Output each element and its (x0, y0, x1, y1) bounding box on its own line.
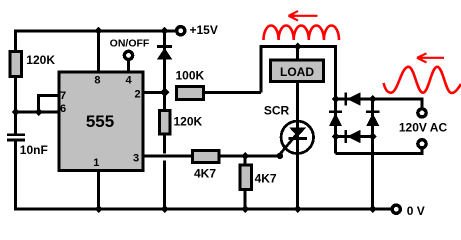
wire pin 1 (97, 171, 100, 209)
node bridge BR (369, 133, 377, 141)
120V AC terminals (418, 109, 426, 117)
wire below capacitor (14, 141, 17, 209)
wire bridge middle column (371, 99, 374, 209)
node bridge TR (369, 95, 377, 103)
node rail pin1 (95, 205, 103, 213)
wire pin 8 (97, 31, 100, 71)
resistor 100K (177, 87, 204, 100)
wire AC bottom return (336, 148, 423, 154)
bridge diode top (D2) (344, 93, 347, 106)
svg-text:+15V: +15V (190, 23, 218, 37)
wire bridge left column (334, 99, 337, 154)
wire 4K7-2 leads (244, 156, 247, 165)
svg-text:0 V: 0 V (407, 204, 425, 218)
wire pin 3 to SCR gate (144, 155, 278, 158)
wire 100K to load corner (204, 91, 261, 94)
wire bridge top row (336, 99, 423, 109)
wire left column lower (14, 78, 17, 134)
svg-text:LOAD: LOAD (280, 65, 314, 79)
node pin7 branch (35, 108, 43, 116)
resistor 4K7 #1 (193, 151, 220, 163)
svg-text:100K: 100K (176, 69, 205, 83)
svg-text:4K7: 4K7 (194, 167, 216, 181)
wire pin 4 to ON/OFF (127, 60, 130, 72)
svg-text:3: 3 (133, 153, 139, 165)
wire 120K2 to ground rail (163, 160, 166, 209)
red arrow over coil (289, 11, 318, 21)
node junction dots (12, 27, 377, 213)
bridge diode left (D3) (329, 110, 342, 113)
bridge diode middle (D4) (366, 110, 379, 113)
svg-text:8: 8 (94, 75, 100, 87)
wire load section corners (261, 47, 336, 100)
resistor R1 120K (10, 52, 22, 77)
node rail 4K7-2 (241, 205, 249, 213)
svg-text:6: 6 (60, 103, 66, 115)
wire 120K2 bottom lead with crossover gap (163, 135, 166, 153)
0V terminal (392, 205, 400, 213)
node bridge TL (332, 95, 340, 103)
svg-text:1: 1 (93, 157, 99, 169)
+15V terminal (177, 27, 185, 35)
svg-text:4: 4 (125, 75, 132, 87)
svg-text:120K: 120K (174, 114, 203, 128)
ON/OFF terminal (124, 51, 132, 59)
wire 4K7-2 to ground (244, 190, 247, 209)
svg-text:4K7: 4K7 (255, 172, 277, 186)
svg-text:SCR: SCR (264, 103, 290, 117)
wire pin 6 (16, 111, 60, 114)
wire pin 7 (39, 95, 59, 112)
op-amp U1 555 timer box (59, 72, 143, 171)
wire load/SCR vertical (296, 47, 299, 210)
node pin2 junction (160, 88, 170, 98)
node 4K7 junction (241, 152, 249, 160)
svg-text:120K: 120K (26, 53, 55, 67)
node load top (294, 43, 302, 51)
node bridge BL (332, 133, 340, 141)
node rail SCR (294, 205, 302, 213)
node pin8/rail (95, 27, 103, 35)
wire 120K2 top lead (163, 92, 166, 110)
node D1/rail (161, 27, 169, 35)
inductor L1 red coil (264, 25, 340, 40)
svg-text:7: 7 (60, 90, 66, 102)
bridge diode bottom (D5) (344, 130, 347, 143)
diode D1 (157, 45, 172, 48)
svg-text:10nF: 10nF (20, 143, 48, 157)
svg-text:ON/OFF: ON/OFF (110, 37, 150, 49)
resistor 120K #2 (160, 111, 170, 135)
wire top rail (16, 31, 177, 50)
node rail 120K2 (161, 205, 169, 213)
svg-text:120V AC: 120V AC (399, 121, 448, 135)
wire bridge bottom diode row (336, 135, 373, 138)
red sine wave 120V AC (384, 67, 461, 93)
node rail bridge (369, 205, 377, 213)
wire diode D1 branch (163, 31, 166, 93)
capacitor C1 10nF (7, 133, 25, 136)
wire pin 2 (144, 91, 165, 94)
red arrow over sine (417, 53, 444, 62)
svg-text:2: 2 (134, 88, 140, 100)
LOAD box (271, 60, 324, 81)
wire 0V bottom rail (14, 208, 392, 211)
SCR gate terminal dot (277, 153, 283, 159)
resistor 4K7 #2 (240, 165, 252, 190)
svg-text:555: 555 (86, 112, 114, 131)
node cap junction (12, 108, 20, 116)
